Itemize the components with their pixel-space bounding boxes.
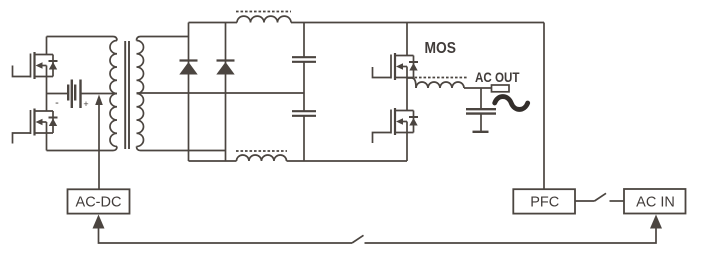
- wire Q3 source to Q4 drain: [406, 78, 408, 111]
- transformer T1 primary winding: [110, 41, 117, 147]
- svg-text:-: -: [55, 97, 59, 109]
- svg-text:AC OUT: AC OUT: [475, 70, 520, 85]
- switch S2 (feedback line): [352, 235, 364, 243]
- transistor Q2 gate lead: [13, 133, 31, 144]
- wire Q2 source to bottom rail: [46, 133, 48, 151]
- svg-text:AC IN: AC IN: [636, 195, 675, 211]
- wire Q1 drain to top rail: [46, 37, 48, 55]
- wire bottom-left rail: [47, 147, 118, 151]
- inductor L2: [237, 155, 287, 161]
- battery BT1: [47, 80, 118, 109]
- wire secondary top lead: [137, 37, 189, 41]
- resistor load (AC OUT): [492, 85, 510, 92]
- transformer T1 secondary winding: [137, 41, 144, 147]
- inductor L2 core (dashed): [236, 150, 287, 152]
- wire L3 to output node: [464, 87, 492, 89]
- wire arrow from AC-DC up to battery node: [98, 104, 100, 189]
- arrowhead into AC IN bottom: [650, 215, 662, 229]
- capacitor C3 (output): [466, 88, 496, 132]
- wire feedback bottom right with arrowhead into AC IN: [365, 228, 657, 243]
- diode D2: [216, 61, 234, 75]
- diode D-Q3 (body diode): [409, 56, 418, 78]
- transistor Q4: [391, 108, 414, 135]
- wire feedback bottom left with arrowhead into AC-DC: [99, 228, 353, 243]
- svg-text:PFC: PFC: [530, 195, 559, 211]
- svg-text:MOS: MOS: [425, 40, 457, 57]
- block PFC box: [513, 189, 575, 213]
- transistor Q1: [31, 52, 54, 79]
- wire diode D1 branch vertical: [188, 23, 190, 162]
- capacitor C2: [292, 63, 316, 162]
- wire bridge midpoint tap: [407, 78, 416, 88]
- wire top-left rail: [47, 37, 118, 41]
- diode D-Q4 (body diode): [409, 111, 418, 133]
- wire diode D2 branch vertical: [225, 23, 227, 162]
- inductor L3 core (dashed): [415, 77, 468, 79]
- arrowhead into AC-DC bottom: [93, 215, 105, 229]
- diode D1: [179, 61, 197, 75]
- transistor Q1 gate lead: [13, 66, 31, 77]
- wire secondary bottom lead: [137, 147, 226, 151]
- wire top rail right of L1: [291, 22, 544, 24]
- diode D-Q1 (body diode): [49, 55, 58, 77]
- wire Q1 source to Q2 drain: [46, 77, 48, 112]
- wire Q3 drain to top rail: [406, 23, 408, 56]
- wire Q4 source to bottom rail: [406, 133, 408, 162]
- arrowhead at battery node: [95, 95, 103, 106]
- wire right rail (top to PFC): [543, 23, 545, 190]
- diode D-Q2 (body diode): [49, 111, 58, 133]
- transistor Q3: [391, 53, 414, 80]
- block AC-DC box: [68, 189, 130, 213]
- transistor Q2: [31, 109, 54, 136]
- svg-text:AC-DC: AC-DC: [76, 195, 122, 211]
- inductor L3 (output filter): [416, 82, 464, 88]
- transformer T1 core: [124, 41, 126, 149]
- wire top rail left of L1: [189, 22, 238, 24]
- capacitor C1: [292, 23, 316, 62]
- transistor Q4 gate lead: [373, 133, 392, 144]
- svg-text:+: +: [83, 99, 88, 109]
- block AC IN box: [624, 189, 686, 214]
- inductor L1: [237, 16, 291, 22]
- transistor Q3 gate lead: [373, 67, 392, 78]
- wire bottom rail left of L2: [189, 160, 237, 162]
- switch S1 (PFC to AC IN): [575, 193, 624, 201]
- wire bottom rail right of L2: [287, 160, 408, 162]
- inductor L1 core (dashed): [236, 11, 291, 13]
- wire secondary center tap to capacitor midpoint: [137, 92, 305, 94]
- AC sine symbol: [495, 97, 528, 110]
